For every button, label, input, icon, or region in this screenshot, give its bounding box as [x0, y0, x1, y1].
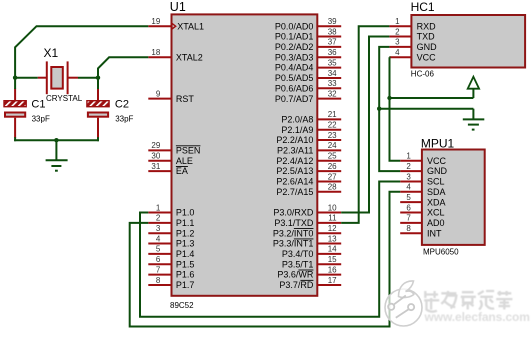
C2 reference label — [115, 98, 129, 110]
U1 pin 27 P2.6/A14 — [276, 172, 341, 186]
svg-text:PSEN: PSEN — [176, 146, 201, 156]
MPU1 pin 5 XDA — [400, 193, 445, 207]
svg-text:19: 19 — [151, 17, 160, 26]
svg-text:25: 25 — [328, 152, 337, 161]
svg-text:P0.6/AD6: P0.6/AD6 — [275, 83, 314, 93]
MPU1 pin 8 INT — [400, 224, 442, 238]
MPU1 reference label — [421, 136, 455, 150]
svg-text:31: 31 — [151, 162, 160, 171]
wire SDA net: U1 P1.1 to MPU1 SDA — [130, 192, 401, 327]
svg-text:CRYSTAL: CRYSTAL — [46, 94, 83, 103]
svg-text:VCC: VCC — [417, 52, 437, 62]
U1 pin 17 P3.7/RD — [279, 276, 341, 290]
svg-text:P3.3/INT1: P3.3/INT1 — [273, 239, 314, 249]
svg-text:AD0: AD0 — [427, 218, 445, 228]
svg-text:P0.2/AD2: P0.2/AD2 — [275, 42, 314, 52]
wire HC1 VCC to MPU1 VCC — [389, 57, 400, 161]
svg-text:EA: EA — [176, 166, 188, 176]
svg-text:GND: GND — [427, 166, 448, 176]
U1 pin 31 EA — [148, 162, 188, 176]
U1 pin 19 XTAL1 — [148, 17, 204, 31]
svg-text:RST: RST — [176, 94, 195, 104]
svg-text:4: 4 — [406, 183, 411, 192]
svg-text:P3.7/RD: P3.7/RD — [279, 280, 314, 290]
svg-text:8: 8 — [156, 276, 161, 285]
svg-text:U1: U1 — [170, 0, 186, 14]
U1 pin 2 P1.1 — [148, 214, 194, 228]
svg-text:MPU1: MPU1 — [421, 136, 455, 150]
svg-text:89C52: 89C52 — [170, 301, 194, 310]
svg-text:P2.6/A14: P2.6/A14 — [276, 177, 313, 187]
svg-text:14: 14 — [328, 245, 337, 254]
svg-text:TXD: TXD — [417, 32, 436, 42]
svg-text:XTAL2: XTAL2 — [176, 52, 203, 62]
U1 pin 35 P0.4/AD4 — [275, 58, 341, 72]
svg-text:P1.1: P1.1 — [176, 218, 195, 228]
svg-text:28: 28 — [328, 183, 337, 192]
U1 pin 13 P3.3/INT1 — [273, 234, 341, 248]
node junction cap rail / ground — [54, 138, 58, 142]
U1 pin 23 P2.2/A10 — [276, 131, 341, 145]
capacitor C1 33pF — [4, 89, 26, 139]
wire SCL net: U1 P1.0 to MPU1 SCL — [140, 182, 400, 317]
C1 value label 33pF — [32, 114, 50, 123]
svg-text:P1.3: P1.3 — [176, 239, 195, 249]
svg-text:P2.7/A15: P2.7/A15 — [276, 187, 313, 197]
HC1 pin 1 RXD — [389, 17, 436, 31]
svg-text:4: 4 — [395, 48, 400, 57]
svg-text:P1.5: P1.5 — [176, 259, 195, 269]
U1 pin 9 RST — [148, 89, 194, 103]
svg-text:3: 3 — [406, 172, 411, 181]
svg-text:SCL: SCL — [427, 177, 445, 187]
svg-text:2: 2 — [406, 162, 411, 171]
U1 pin 29 PSEN — [148, 141, 200, 155]
U1 value label 89C52 — [170, 301, 194, 310]
svg-text:1: 1 — [406, 152, 411, 161]
MPU1 value label MPU6050 — [423, 248, 459, 257]
U1 pin 28 P2.7/A15 — [276, 183, 341, 197]
svg-text:38: 38 — [328, 27, 337, 36]
svg-text:26: 26 — [328, 162, 337, 171]
svg-text:HC-06: HC-06 — [411, 70, 435, 79]
wire VCC rail to power symbol — [390, 89, 474, 98]
wire XTAL1 net: U1 pin19 to crystal left / C1 — [15, 26, 148, 141]
svg-text:10: 10 — [328, 203, 337, 212]
svg-text:ALE: ALE — [176, 156, 193, 166]
U1 pin 18 XTAL2 — [148, 48, 202, 62]
svg-text:P3.4/T0: P3.4/T0 — [282, 249, 314, 259]
svg-text:P2.4/A12: P2.4/A12 — [276, 156, 313, 166]
U1 reference label — [170, 0, 186, 14]
svg-text:C2: C2 — [115, 98, 129, 110]
capacitor C2 33pF — [87, 89, 109, 139]
C2 value label 33pF — [115, 114, 133, 123]
svg-text:3: 3 — [395, 38, 400, 47]
svg-text:VCC: VCC — [427, 156, 447, 166]
svg-text:30: 30 — [151, 152, 160, 161]
svg-text:33pF: 33pF — [115, 114, 133, 123]
svg-text:P1.2: P1.2 — [176, 228, 195, 238]
C1 reference label — [31, 98, 45, 110]
U1 pin 4 P1.3 — [148, 234, 194, 248]
svg-text:P3.1/TXD: P3.1/TXD — [274, 218, 314, 228]
svg-text:39: 39 — [328, 17, 337, 26]
node junction crystal right — [96, 76, 100, 80]
svg-text:29: 29 — [151, 141, 160, 150]
watermark logo (decorative) — [385, 281, 422, 326]
svg-text:33pF: 33pF — [32, 114, 50, 123]
svg-text:24: 24 — [328, 141, 337, 150]
svg-text:7: 7 — [406, 214, 411, 223]
MPU1 pin 4 SDA — [400, 183, 445, 197]
MPU1 pin 6 XCL — [400, 203, 444, 217]
sensor MPU1 MPU6050 body — [422, 150, 485, 245]
svg-text:P2.0/A8: P2.0/A8 — [281, 114, 313, 124]
MPU1 pin 2 GND — [400, 162, 447, 176]
U1 pin 5 P1.4 — [148, 245, 194, 259]
svg-text:P1.7: P1.7 — [176, 280, 195, 290]
svg-text:33: 33 — [328, 79, 337, 88]
svg-text:P0.4/AD4: P0.4/AD4 — [275, 63, 314, 73]
U1 pin 14 P3.4/T0 — [282, 245, 341, 259]
MPU1 pin 7 AD0 — [400, 214, 444, 228]
svg-text:P3.5/T1: P3.5/T1 — [282, 259, 314, 269]
svg-text:1: 1 — [156, 203, 161, 212]
svg-text:INT: INT — [427, 228, 442, 238]
svg-text:15: 15 — [328, 255, 337, 264]
MPU1 pin 1 VCC — [400, 152, 446, 166]
wire HC1 TXD to U1 P3.0/RXD — [341, 37, 389, 213]
svg-text:P0.5/AD5: P0.5/AD5 — [275, 73, 314, 83]
svg-text:36: 36 — [328, 48, 337, 57]
U1 pin 25 P2.4/A12 — [276, 152, 341, 166]
U1 pin 39 P0.0/AD0 — [275, 17, 341, 31]
node junction crystal left — [13, 76, 17, 80]
U1 pin 8 P1.7 — [148, 276, 194, 290]
svg-text:P3.6/WR: P3.6/WR — [277, 270, 314, 280]
U1 pin 33 P0.6/AD6 — [275, 79, 341, 93]
svg-text:6: 6 — [156, 255, 161, 264]
svg-text:18: 18 — [151, 48, 160, 57]
svg-text:SDA: SDA — [427, 187, 446, 197]
U1 pin 38 P0.1/AD1 — [275, 27, 341, 41]
U1 pin 6 P1.5 — [148, 255, 194, 269]
svg-text:P0.0/AD0: P0.0/AD0 — [275, 21, 314, 31]
ground symbol near HC1 — [463, 119, 485, 129]
U1 pin 21 P2.0/A8 — [281, 110, 341, 124]
svg-text:12: 12 — [328, 224, 337, 233]
wire HC1 GND to MPU1 GND — [379, 47, 400, 171]
svg-text:22: 22 — [328, 121, 337, 130]
crystal X1 — [38, 61, 78, 94]
X1 reference label — [44, 46, 59, 60]
bluetooth module HC1 body — [411, 15, 525, 68]
power symbol VCC arrow — [468, 77, 479, 89]
U1 pin 10 P3.0/RXD — [273, 203, 341, 217]
svg-text:6: 6 — [406, 203, 411, 212]
svg-text:21: 21 — [328, 110, 337, 119]
svg-text:HC1: HC1 — [411, 0, 435, 14]
U1 pin 1 P1.0 — [148, 203, 194, 217]
IC U1 89C52 body — [172, 14, 318, 295]
HC1 reference label — [411, 0, 435, 14]
wire GND rail to ground symbol — [379, 109, 473, 120]
svg-text:7: 7 — [156, 265, 161, 274]
svg-text:2: 2 — [156, 214, 161, 223]
svg-text:XCL: XCL — [427, 208, 445, 218]
svg-text:MPU6050: MPU6050 — [423, 248, 459, 257]
svg-text:P2.2/A10: P2.2/A10 — [276, 135, 313, 145]
U1 pin 34 P0.5/AD5 — [275, 69, 341, 83]
svg-text:RXD: RXD — [417, 21, 437, 31]
svg-text:P3.0/RXD: P3.0/RXD — [273, 208, 314, 218]
ground symbol under crystal — [46, 160, 68, 170]
svg-text:XDA: XDA — [427, 197, 446, 207]
wire XTAL2 net: U1 pin18 to crystal right / C2 — [78, 57, 148, 141]
MPU1 pin 3 SCL — [400, 172, 444, 186]
U1 pin 37 P0.2/AD2 — [275, 38, 341, 52]
svg-text:C1: C1 — [31, 98, 45, 110]
svg-text:4: 4 — [156, 234, 161, 243]
HC1 pin 2 TXD — [389, 27, 435, 41]
HC1 pin 3 GND — [389, 38, 437, 52]
U1 pin 30 ALE — [148, 152, 193, 166]
svg-text:P1.4: P1.4 — [176, 249, 195, 259]
U1 pin 16 P3.6/WR — [277, 265, 341, 279]
wire HC1 RXD to U1 P3.1/TXD — [341, 26, 389, 223]
U1 pin 26 P2.5/A13 — [276, 162, 341, 176]
svg-text:P3.2/INT0: P3.2/INT0 — [273, 228, 314, 238]
svg-text:23: 23 — [328, 131, 337, 140]
U1 pin 24 P2.3/A11 — [277, 141, 341, 155]
svg-text:3: 3 — [156, 224, 161, 233]
U1 pin 15 P3.5/T1 — [282, 255, 341, 269]
svg-text:35: 35 — [328, 58, 337, 67]
svg-text:P0.1/AD1: P0.1/AD1 — [275, 32, 314, 42]
svg-text:P1.0: P1.0 — [176, 208, 195, 218]
svg-text:www.elecfans.com: www.elecfans.com — [424, 310, 530, 324]
svg-text:13: 13 — [328, 234, 337, 243]
svg-text:XTAL1: XTAL1 — [177, 21, 204, 31]
U1 pin 7 P1.6 — [148, 265, 194, 279]
svg-text:5: 5 — [406, 193, 411, 202]
watermark text (decorative) — [424, 291, 530, 324]
svg-text:27: 27 — [328, 172, 337, 181]
svg-text:P0.7/AD7: P0.7/AD7 — [275, 94, 314, 104]
U1 pin 3 P1.2 — [148, 224, 194, 238]
HC1 value label HC-06 — [411, 70, 435, 79]
U1 pin 32 P0.7/AD7 — [275, 89, 341, 103]
node junction GND net — [377, 107, 381, 111]
svg-text:2: 2 — [395, 27, 400, 36]
svg-text:P1.6: P1.6 — [176, 270, 195, 280]
HC1 pin 4 VCC — [389, 48, 436, 62]
svg-text:32: 32 — [328, 89, 337, 98]
svg-text:P2.3/A11: P2.3/A11 — [277, 146, 313, 156]
svg-text:P0.3/AD3: P0.3/AD3 — [275, 52, 314, 62]
svg-text:37: 37 — [328, 38, 337, 47]
svg-text:17: 17 — [328, 276, 337, 285]
U1 pin 36 P0.3/AD3 — [275, 48, 341, 62]
U1 pin 12 P3.2/INT0 — [273, 224, 341, 238]
svg-text:9: 9 — [156, 89, 161, 98]
svg-text:11: 11 — [328, 214, 337, 223]
svg-text:X1: X1 — [44, 46, 59, 60]
wire capacitor ground rail — [14, 140, 99, 160]
svg-text:8: 8 — [406, 224, 411, 233]
svg-text:5: 5 — [156, 245, 161, 254]
svg-text:P2.1/A9: P2.1/A9 — [281, 125, 313, 135]
node junction VCC net — [387, 96, 391, 100]
svg-text:34: 34 — [328, 69, 337, 78]
svg-text:1: 1 — [395, 17, 400, 26]
svg-text:P2.5/A13: P2.5/A13 — [276, 166, 313, 176]
X1 value label CRYSTAL — [46, 94, 83, 103]
svg-text:GND: GND — [417, 42, 438, 52]
svg-text:16: 16 — [328, 265, 337, 274]
U1 pin 22 P2.1/A9 — [281, 121, 341, 135]
U1 pin 11 P3.1/TXD — [274, 214, 341, 228]
